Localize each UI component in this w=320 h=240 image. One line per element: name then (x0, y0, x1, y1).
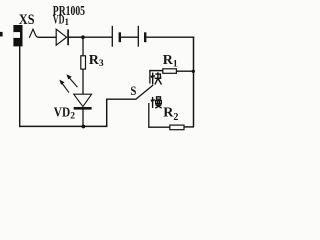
switch S fixed contact (slow) (148, 103, 150, 128)
wire bottom rail (19, 125, 107, 127)
node C junction dot (VD2 to bottom rail) (82, 125, 86, 129)
switch S lever (136, 85, 153, 99)
wire R3 to VD2 (82, 69, 84, 94)
resistor R3 (81, 56, 86, 69)
wire VD1 cathode to node A (69, 36, 83, 38)
wire step down to bottom rail (106, 99, 108, 127)
plug arc of XS (29, 29, 38, 38)
node A junction dot (81, 35, 85, 39)
wire slow contact to R2 (148, 126, 170, 128)
diode VD1 (56, 29, 68, 45)
LED emission arrow 2 (66, 74, 77, 87)
wire between battery cells (121, 36, 138, 38)
battery GB cell 1 (112, 26, 120, 47)
wire R1 left lead to switch contact (149, 70, 163, 72)
label man (slow) hand-drawn glyph (151, 97, 162, 108)
wire right rail (193, 37, 195, 127)
wire from plug arc to VD1 anode (38, 36, 56, 38)
label kuai (fast) hand-drawn glyph (151, 72, 161, 84)
svg-text:XS: XS (19, 12, 35, 28)
wire R1 right lead (176, 70, 193, 72)
wire node A to battery (84, 36, 112, 38)
connector XS socket body (13, 25, 22, 46)
LED VD2 (74, 94, 92, 108)
wire left rail (19, 46, 21, 127)
switch S fixed contact (fast) (149, 70, 151, 83)
LED emission arrow 1 (59, 80, 69, 93)
resistor R2 (170, 125, 184, 130)
battery GB cell 2 (138, 26, 145, 47)
wire VD2 cathode to bottom rail (82, 110, 84, 127)
svg-text:S: S (130, 84, 136, 98)
resistor R1 (163, 69, 177, 74)
wire switch pole (107, 98, 137, 100)
wire battery to top-right corner (146, 36, 194, 38)
wire node A down to R3 (82, 37, 84, 56)
node B junction dot (R1 to right rail) (192, 70, 195, 73)
wire R2 to right rail (184, 126, 194, 128)
connector XS plug pin at left edge (0, 32, 3, 37)
